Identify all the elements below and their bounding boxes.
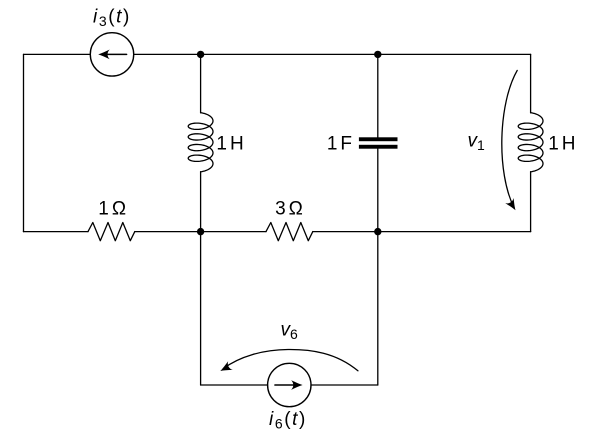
wire bottom left segment: [201, 384, 268, 386]
wire top-left horizontal: [24, 53, 91, 55]
current source I3 arrowhead: [98, 50, 110, 60]
wire column B lower: [377, 232, 379, 385]
node dot top B: [374, 51, 381, 58]
current source I6 arrowhead: [291, 380, 303, 390]
current source I3 circle: [90, 33, 133, 76]
resistor R2 3ohm zigzag: [266, 223, 313, 241]
svg-text:i3(t): i3(t): [93, 6, 131, 29]
wire column B upper: [377, 54, 379, 137]
svg-text:i6(t): i6(t): [269, 409, 307, 432]
svg-text:1F: 1F: [327, 134, 352, 155]
wire top horizontal right of source: [134, 53, 531, 55]
svg-text:v6: v6: [281, 319, 299, 342]
voltage arrow v1 arrowhead: [505, 198, 515, 210]
svg-text:v1: v1: [468, 130, 486, 153]
capacitor C1 bottom plate: [359, 145, 398, 149]
wire column B below capacitor: [377, 149, 379, 232]
current source I6 arrow shaft: [275, 384, 299, 386]
wire column A lower: [200, 232, 202, 385]
capacitor C1 top plate: [359, 137, 398, 141]
wire right vertical upper: [530, 54, 532, 112]
voltage arrow v1 arc: [502, 70, 517, 208]
wire middle between resistors: [135, 231, 266, 233]
current source I6 circle: [268, 363, 311, 406]
current source I3 arrow shaft: [101, 53, 127, 55]
node dot middle B: [374, 228, 381, 235]
wire right vertical lower: [530, 172, 532, 232]
svg-text:1H: 1H: [548, 134, 575, 155]
resistor R1 1ohm zigzag: [88, 223, 135, 241]
wire bottom right segment: [311, 384, 378, 386]
wire middle right segment: [313, 231, 531, 233]
wire column A below coil: [200, 172, 202, 232]
node dot top A: [197, 51, 204, 58]
inductor L1 coil: [188, 113, 213, 172]
wire middle left segment: [24, 231, 89, 233]
wire left vertical: [23, 54, 25, 231]
voltage arrow v6 arc: [223, 349, 358, 370]
node dot middle A: [197, 228, 204, 235]
voltage arrow v6 arrowhead: [220, 361, 232, 371]
svg-text:3Ω: 3Ω: [275, 199, 303, 220]
svg-text:1H: 1H: [216, 134, 243, 155]
wire column A upper: [200, 54, 202, 112]
inductor L2 coil: [518, 113, 543, 172]
svg-text:1Ω: 1Ω: [98, 199, 126, 220]
